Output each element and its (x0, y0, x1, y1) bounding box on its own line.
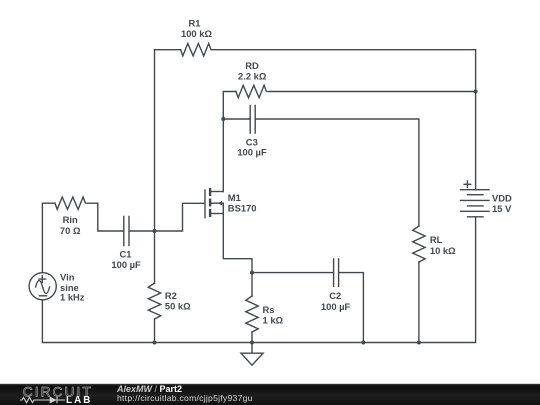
wire: C1 right lead to node (130, 230, 155, 232)
mosfet M1 source lead (211, 213, 223, 215)
resistor R1 (181, 44, 211, 56)
wire: RL bottom to rail (418, 262, 420, 343)
mosfet M1 drain lead (211, 191, 223, 193)
Vin plus sign (39, 276, 46, 283)
svg-text:RL: RL (430, 234, 443, 245)
Vin minus sign (39, 295, 46, 297)
svg-text:15 V: 15 V (492, 203, 512, 214)
mosfet M1 channel bars (209, 188, 211, 217)
voltage source Vin circle (29, 273, 56, 300)
capacitor C2 (334, 259, 339, 286)
logo resistor-diode doodle (20, 397, 65, 404)
svg-text:Rin: Rin (63, 214, 78, 225)
node: R2 rail junction (153, 341, 157, 345)
svg-text:R2: R2 (165, 290, 177, 301)
capacitor C3 (250, 105, 255, 133)
logo diode triangle (50, 397, 57, 404)
resistor Rs (246, 296, 258, 332)
wire: R1 right lead to top-right corner, down to battery top (212, 50, 475, 190)
svg-text:1 kΩ: 1 kΩ (263, 315, 284, 326)
ground (241, 343, 263, 366)
svg-text:1 kHz: 1 kHz (60, 292, 85, 303)
wire: C2 left lead (252, 272, 333, 274)
wire: Vin bottom, ground rail, battery bottom (42, 217, 475, 343)
svg-text:10 kΩ: 10 kΩ (430, 245, 456, 256)
wire: RD left lead (223, 92, 236, 192)
mosfet M1 gate bar (204, 190, 206, 218)
svg-text:Rs: Rs (263, 304, 275, 315)
svg-text:100 kΩ: 100 kΩ (181, 28, 212, 39)
svg-text:2.2 kΩ: 2.2 kΩ (238, 70, 267, 81)
wire: Rin corner down to Vin top (42, 203, 55, 273)
wire: C2 right lead down to rail (339, 273, 363, 343)
node: RL rail junction (417, 341, 421, 345)
resistor RL (413, 226, 425, 262)
capacitor C1 (124, 217, 129, 246)
resistor RD (236, 85, 266, 97)
resistor R2 (148, 283, 160, 319)
wire: Rs top lead (251, 273, 253, 296)
svg-text:VDD: VDD (492, 193, 512, 204)
svg-text:BS170: BS170 (228, 202, 257, 213)
svg-text:RD: RD (245, 60, 259, 71)
svg-text:C2: C2 (329, 290, 341, 301)
node: C2 rail junction (361, 341, 365, 345)
node: ground rail junction (250, 341, 254, 345)
svg-text:70 Ω: 70 Ω (60, 225, 81, 236)
svg-text:http://circuitlab.com/cjjp5jfy: http://circuitlab.com/cjjp5jfy937gu (117, 393, 253, 403)
svg-text:LAB: LAB (66, 395, 92, 405)
wire: R2 bottom to rail (154, 319, 156, 343)
mosfet M1 body lead (211, 202, 223, 204)
resistor Rin (55, 197, 85, 209)
wire: C3 right lead to RL top (256, 119, 419, 226)
svg-text:R1: R1 (189, 17, 201, 28)
node: source/Rs/C2 junction (250, 271, 254, 275)
wire: M1 source jog down to Rs node (223, 203, 252, 272)
wire: C3 left lead (223, 118, 249, 120)
node: C1/R2/gate junction (153, 229, 157, 233)
wire: left bias vertical (R1 left down through C1 node to R2) (155, 50, 181, 283)
battery plus sign (464, 181, 471, 188)
wire: Rs bottom to rail (251, 332, 253, 343)
node: R1/RD right junction (474, 90, 478, 94)
battery VDD plates (461, 190, 490, 217)
Vin sine wave (36, 280, 50, 293)
svg-text:100 µF: 100 µF (237, 146, 267, 157)
wire: Rin right lead down to C1 (87, 203, 123, 231)
wire: gate wire from C1 node to M1 gate (155, 203, 205, 231)
svg-text:100 µF: 100 µF (111, 259, 141, 270)
svg-text:50 kΩ: 50 kΩ (165, 301, 191, 312)
mosfet M1 body arrow (218, 201, 222, 206)
svg-text:100 µF: 100 µF (321, 301, 351, 312)
wire: RD right lead to right vertical (268, 91, 476, 93)
node: RD/C3/drain junction (221, 117, 225, 121)
